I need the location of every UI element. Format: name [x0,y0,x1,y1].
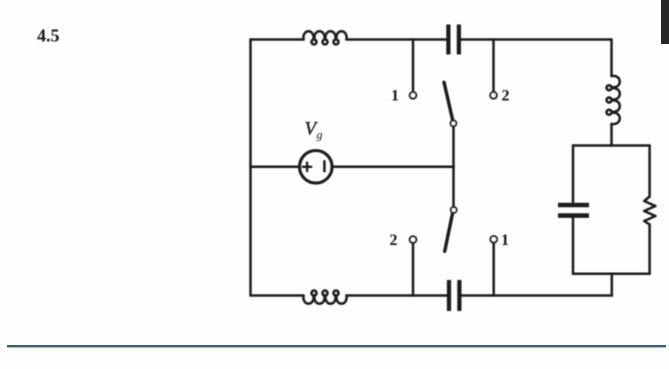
label 1 (bottom) [501,232,509,249]
svg-text:1: 1 [391,88,399,105]
wire load box left edge lower [572,218,575,273]
svg-text:1: 1 [501,232,509,249]
capacitor C-bottom [449,280,459,311]
label 2 (top) [502,88,510,105]
wire load box right edge lower [648,225,651,274]
wire node-2 top stub [492,40,495,92]
wire bottom middle segment [347,294,447,297]
wire node-1 top stub [412,40,415,92]
wire right vertical to box [610,124,613,146]
terminal 1 (top left contact) [410,92,417,99]
inductor bottom (horizontal coil) [303,291,346,304]
label 2 (bottom) [390,232,398,249]
wire load box right edge upper [648,146,651,197]
capacitor C-load (horizontal plates) [558,205,589,216]
wire right vertical upper [610,40,613,77]
wire middle right segment [332,166,453,169]
wire node-2 bottom stub [412,243,415,296]
wire left vertical branch [249,40,252,296]
switch S1 pivot [451,121,457,127]
source plus sign [303,163,312,172]
svg-text:g: g [317,128,323,142]
page corner black mark [661,0,669,44]
source minus bar [323,161,326,171]
wire load box top edge [573,144,650,147]
wire switch column lower [452,167,455,207]
inductor top (horizontal coil) [303,31,346,44]
wire top right segment [461,38,612,41]
capacitor C-top [448,25,459,55]
terminal 2 (bottom left contact) [410,236,417,243]
svg-text:2: 2 [502,88,510,105]
label Vg [305,119,323,142]
wire middle left segment [251,166,300,169]
problem number 4.5 [37,26,60,46]
svg-text:4.5: 4.5 [37,26,60,46]
inductor right (vertical coil) [607,76,620,124]
wire switch column upper [452,126,455,167]
switch S2 arm (lower) [445,214,453,252]
switch S1 arm (upper) [444,82,453,120]
terminal 2 (top right contact) [490,92,497,99]
bottom separator rule [7,345,666,347]
switch S2 pivot [451,207,457,213]
wire top left segment [251,38,304,41]
wire bottom right segment [462,294,612,297]
wire top middle segment [347,38,447,41]
label 1 (top) [391,88,399,105]
source Vg circle [300,151,333,184]
terminal 1 (bottom right contact) [490,236,497,243]
wire node-1 bottom stub [492,243,495,296]
wire load box bottom stub [611,274,614,296]
wire load box left edge upper [572,146,575,203]
svg-text:2: 2 [390,232,398,249]
wire bottom left segment [251,294,304,297]
resistor R-load zigzag [644,197,655,225]
wire load box bottom edge [573,273,650,276]
